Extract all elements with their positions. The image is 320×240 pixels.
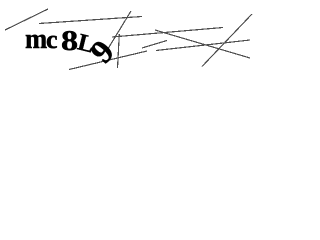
letter 8 [61,27,78,56]
letter 9 [85,35,121,69]
wire B long horizontal [39,17,142,24]
wire C steep diagonal [106,11,131,52]
wire D long horizontal mid [112,28,223,38]
wire V vertical [118,34,120,68]
wire G bottom rising [69,51,147,70]
wire E falling diagonal [155,30,250,58]
wire H bottom-right gentle rise [156,40,250,51]
noise lines [0,0,310,70]
letter c [46,27,58,53]
wire F steep right diagonal [202,14,252,67]
wire G2 short rising [142,41,167,49]
wire A top-left diagonal [5,9,48,30]
letter L [75,30,96,57]
captcha image [0,0,310,70]
letter m [25,25,47,54]
